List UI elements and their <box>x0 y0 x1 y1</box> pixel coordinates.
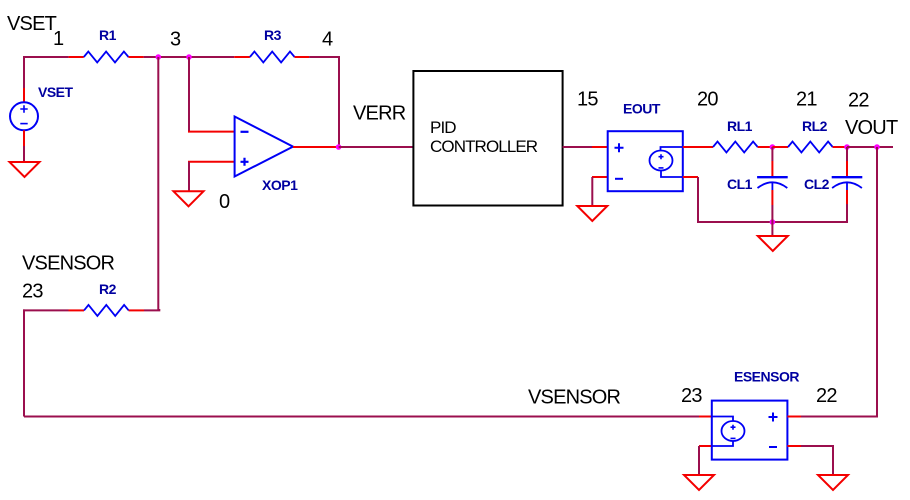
ground (node 0) <box>174 191 204 206</box>
voltage source VSET <box>10 102 38 130</box>
resistor R1 <box>84 52 129 63</box>
wire node4 vertical down to op-amp output <box>338 56 340 147</box>
wire VSENSOR bottom rail <box>24 416 699 418</box>
pin lead EOUT plus input <box>592 146 608 148</box>
wire VOUT vertical feedback <box>876 147 878 416</box>
pin lead RL1 right <box>758 146 773 148</box>
svg-text:22: 22 <box>816 385 837 407</box>
ground (VSET) <box>10 162 40 177</box>
svg-text:VSET: VSET <box>7 13 57 35</box>
ground (load rail) <box>758 236 788 251</box>
wire VSET to ground <box>23 146 25 162</box>
wire non-inverting input to ground <box>188 162 190 192</box>
resistor RL2 <box>788 142 833 153</box>
wire node4 to corner <box>309 56 339 58</box>
wire ESENSOR output minus to ground <box>698 446 700 475</box>
pin lead R3 left <box>234 56 250 58</box>
svg-text:VSENSOR: VSENSOR <box>528 387 621 409</box>
wire R2 to node3 vertical <box>144 309 159 310</box>
pin lead R2 right <box>129 309 144 311</box>
pin lead RL2 right <box>833 146 847 148</box>
resistor R3 <box>250 52 295 63</box>
capacitor CL2 <box>832 147 863 223</box>
svg-text:4: 4 <box>322 29 333 51</box>
svg-text:R3: R3 <box>264 27 282 43</box>
pin lead R2 left <box>69 309 85 311</box>
pin lead R1 left <box>69 56 84 58</box>
junction node 3 dot A <box>156 54 162 60</box>
PID controller block <box>413 71 562 206</box>
svg-text:VSENSOR: VSENSOR <box>22 253 115 275</box>
svg-text:VERR: VERR <box>353 103 406 125</box>
pin lead R3 right <box>295 56 310 58</box>
controlled source EOUT <box>608 131 683 191</box>
wire node3 horizontal <box>144 56 235 58</box>
resistor R2 <box>84 305 129 316</box>
svg-text:23: 23 <box>681 385 702 407</box>
ground (ESENSOR right) <box>818 475 848 490</box>
wire node1 top-left vertical <box>23 57 25 88</box>
svg-text:ESENSOR: ESENSOR <box>734 369 799 385</box>
wire node 23 vertical down <box>23 309 25 416</box>
pin lead VSET source bottom <box>23 130 25 146</box>
svg-text:CL2: CL2 <box>804 176 830 192</box>
junction node 3 dot B <box>186 54 192 60</box>
pin lead EOUT minus input <box>592 176 608 178</box>
pin lead op-amp inverting input <box>188 131 235 133</box>
wire ESENSOR minus to ground <box>801 446 833 475</box>
pin lead EOUT output top <box>683 146 713 148</box>
svg-text:RL2: RL2 <box>802 118 828 134</box>
pin lead ESENSOR output minus <box>699 445 712 447</box>
svg-text:EOUT: EOUT <box>623 101 661 117</box>
junction rail ground <box>770 219 776 225</box>
svg-text:20: 20 <box>697 89 718 111</box>
wire EOUT minus to ground <box>591 177 593 206</box>
pin lead VSET source top <box>23 88 25 102</box>
svg-text:XOP1: XOP1 <box>262 177 298 193</box>
wire PID output node 15 <box>563 146 592 148</box>
pin lead ESENSOR input minus <box>787 445 801 447</box>
ground (EOUT) <box>577 206 607 221</box>
pin lead EOUT output bottom <box>683 176 698 178</box>
pin lead ESENSOR input plus <box>787 416 801 418</box>
controlled source ESENSOR <box>712 401 788 460</box>
junction node 22 <box>844 144 850 150</box>
svg-text:CONTROLLER: CONTROLLER <box>430 137 538 156</box>
svg-text:3: 3 <box>170 29 181 51</box>
junction op-amp output node 4 <box>336 144 342 150</box>
wire node 22 to VOUT <box>847 146 893 148</box>
svg-text:1: 1 <box>53 28 64 50</box>
svg-text:23: 23 <box>22 281 43 303</box>
svg-text:0: 0 <box>219 191 230 213</box>
svg-text:VOUT: VOUT <box>845 117 898 139</box>
svg-text:RL1: RL1 <box>727 118 753 134</box>
wire bottom rail (load) <box>697 221 847 223</box>
pin lead ESENSOR output plus <box>699 416 712 418</box>
svg-text:21: 21 <box>796 89 817 111</box>
svg-text:VSET: VSET <box>38 84 74 100</box>
wire ESENSOR plus to VOUT vertical <box>801 416 878 418</box>
pin lead op-amp output <box>293 146 339 148</box>
svg-text:PID: PID <box>430 118 456 137</box>
svg-text:CL1: CL1 <box>727 176 753 192</box>
svg-text:22: 22 <box>848 90 869 112</box>
svg-text:R1: R1 <box>99 27 117 43</box>
wire node3 vertical long to R2 <box>157 57 159 310</box>
pin lead R1 right <box>128 56 143 58</box>
junction VOUT <box>874 144 880 150</box>
op-amp XOP1 <box>235 117 293 177</box>
junction node 21 <box>770 144 776 150</box>
ground (ESENSOR left) <box>684 475 714 490</box>
wire VERR to PID box <box>339 146 414 148</box>
pin lead RL2 left <box>772 146 788 148</box>
svg-text:15: 15 <box>577 89 598 111</box>
svg-text:R2: R2 <box>99 281 117 297</box>
wire rail to ground <box>771 222 773 236</box>
resistor RL1 <box>713 142 758 153</box>
wire node 23 horizontal <box>23 309 69 311</box>
pin lead op-amp non-inverting input <box>188 161 235 163</box>
wire EOUT bottom to rail <box>697 177 699 222</box>
wire node1 horizontal <box>23 56 69 58</box>
capacitor CL1 <box>757 147 788 222</box>
wire node3 vertical to op-amp inverting input <box>188 57 190 132</box>
